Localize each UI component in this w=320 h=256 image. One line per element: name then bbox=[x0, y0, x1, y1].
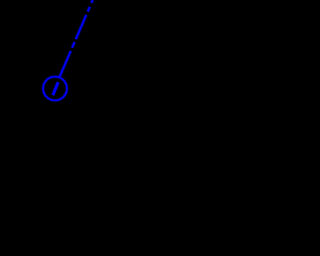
wire pointer slash inside bob bbox=[53, 82, 58, 95]
wire pendulum string dash segment 3 (long) bbox=[76, 15, 87, 39]
wire pendulum string dash segment 4 bbox=[72, 42, 75, 48]
node pendulum bob (circle outline) bbox=[43, 77, 67, 101]
wire pendulum string dash segment 5 (to bob) bbox=[60, 51, 71, 77]
wire pendulum string dash segment 1 (top) bbox=[91, 0, 92, 3]
pendulum string halo (soft edge of dashed rod) bbox=[43, 0, 93, 100]
wire pendulum string dash segment 2 bbox=[88, 7, 90, 12]
